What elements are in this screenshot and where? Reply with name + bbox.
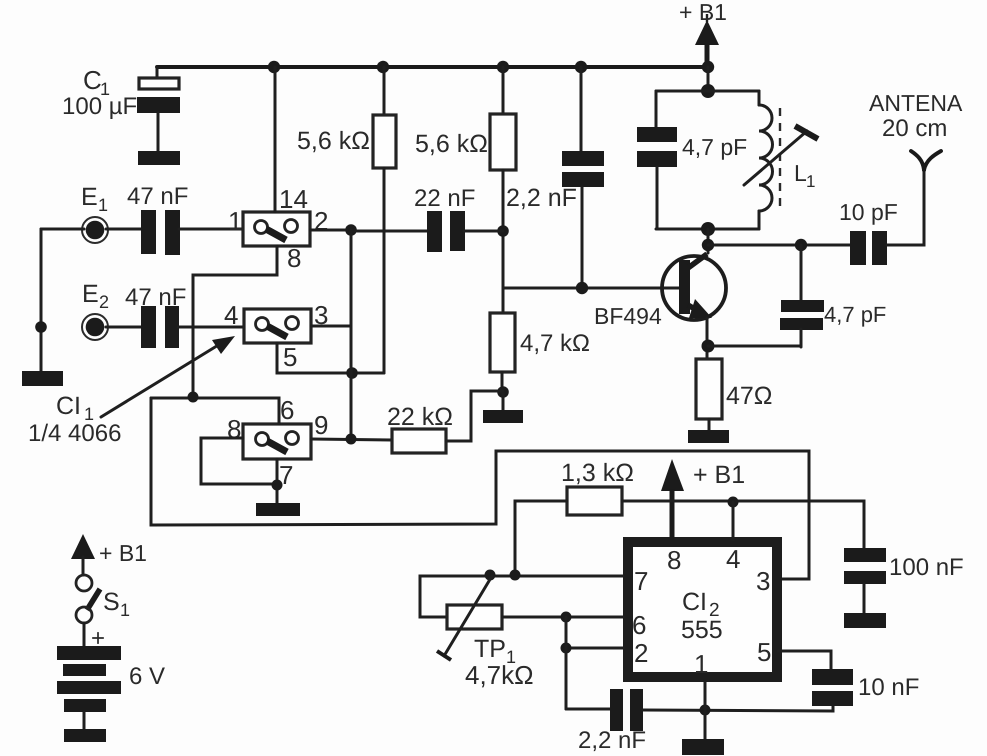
capacitor 10nF	[778, 651, 919, 706]
wire pin14 to rail	[274, 67, 277, 212]
battery cells	[57, 646, 165, 712]
IC CI2 555	[628, 542, 777, 679]
svg-text:6: 6	[632, 610, 646, 640]
power +B1 arrow mid	[661, 459, 745, 540]
ground 4.7k	[483, 410, 523, 423]
wire base line	[503, 287, 680, 290]
node pin7 1.3k junction	[510, 570, 521, 581]
svg-text:4,7 pF: 4,7 pF	[682, 134, 747, 160]
svg-text:8: 8	[287, 243, 301, 273]
wire 47nF to switch pin4	[178, 326, 244, 329]
wire 1.3k left	[515, 501, 567, 575]
trimpot TP1 4.7k	[437, 576, 534, 690]
wire collector	[707, 229, 710, 253]
wire pin1 ground stem	[704, 710, 707, 739]
wire emitter	[706, 318, 709, 359]
wire 47nF to switch pin1	[179, 228, 243, 231]
svg-text:1: 1	[228, 206, 242, 236]
ground input bus	[22, 371, 63, 386]
svg-text:7: 7	[634, 566, 648, 596]
wire pin5 route	[277, 343, 384, 373]
ground 100nF	[844, 613, 886, 628]
wire tank top	[656, 90, 759, 93]
capacitor 2.2nF timing	[566, 689, 646, 754]
svg-text:5: 5	[757, 637, 771, 667]
svg-text:4,7 pF: 4,7 pF	[824, 302, 886, 327]
node base junction	[576, 282, 588, 294]
svg-text:E: E	[82, 280, 99, 308]
label CI1	[28, 392, 121, 447]
transistor Q1 BF494	[594, 254, 726, 329]
node 4.7k ground junction	[497, 386, 509, 398]
ground battery	[64, 729, 106, 742]
capacitor 47nF lower	[125, 284, 186, 348]
node pin5 junction	[346, 367, 358, 379]
svg-text:2: 2	[634, 638, 648, 668]
arrow CI1 pointer	[101, 336, 235, 417]
switch S1	[76, 575, 130, 623]
wire pin3 output	[311, 325, 351, 328]
svg-text:47Ω: 47Ω	[726, 382, 773, 410]
svg-text:CI: CI	[56, 392, 81, 420]
wire pin6	[502, 616, 623, 619]
svg-text:8: 8	[667, 545, 681, 575]
wire S1 to battery	[83, 623, 86, 646]
svg-text:ANTENA: ANTENA	[869, 90, 963, 116]
node rail junction A	[268, 61, 280, 73]
wire pin8 loop	[201, 438, 277, 484]
svg-text:+ B1: + B1	[99, 540, 147, 566]
wire tank feed	[707, 67, 710, 91]
svg-text:20 cm: 20 cm	[882, 115, 947, 142]
capacitor C1 100uF	[62, 65, 180, 151]
antenna symbol	[869, 90, 963, 170]
switch CI1b 4066	[224, 300, 328, 372]
svg-text:1: 1	[98, 195, 108, 215]
wire 4.7pF to emitter	[708, 345, 801, 348]
wire E2 to C 47nF lower	[106, 326, 141, 329]
wire bus pins 2-3-5-9 vertical	[350, 230, 353, 439]
node E2 input connector	[82, 280, 109, 340]
svg-text:4: 4	[726, 544, 740, 574]
svg-text:5,6 kΩ: 5,6 kΩ	[297, 127, 370, 155]
wire pin4	[732, 502, 735, 540]
node pin2 junction	[345, 224, 357, 236]
svg-text:100 µF: 100 µF	[62, 93, 137, 120]
node pin4 junction	[728, 497, 739, 508]
wire output to antenna coupling	[708, 244, 850, 247]
wire 1.3k right to 100nF	[622, 501, 864, 548]
svg-text:47 nF: 47 nF	[127, 183, 188, 210]
switch CI1a 4066	[228, 184, 328, 273]
wire bottom rail	[643, 706, 833, 711]
svg-text:100 nF: 100 nF	[889, 554, 964, 581]
resistor 5.6k first	[297, 67, 396, 168]
resistor 1.3k	[561, 459, 634, 515]
svg-text:555: 555	[681, 616, 723, 644]
node pin7 wiper junction	[485, 570, 496, 581]
svg-text:1: 1	[120, 600, 130, 620]
wire 5.6k2 down	[502, 170, 505, 313]
node tank bottom	[701, 222, 715, 236]
wire pin6 route	[151, 398, 279, 424]
node rail junction E	[702, 61, 714, 73]
svg-text:4,7kΩ: 4,7kΩ	[465, 660, 534, 690]
wire pin7 to ground	[276, 459, 279, 503]
svg-text:5: 5	[283, 342, 297, 372]
node pin2 junction	[561, 643, 572, 654]
svg-text:2,2 nF: 2,2 nF	[506, 184, 577, 212]
capacitor 4.7pF tank	[637, 91, 747, 229]
capacitor 22nF	[351, 185, 503, 252]
inductor L1	[759, 91, 815, 229]
wire pin7	[420, 576, 623, 617]
svg-text:E: E	[81, 183, 98, 211]
svg-text:1,3 kΩ: 1,3 kΩ	[561, 459, 634, 487]
svg-text:S: S	[103, 588, 120, 616]
svg-text:2: 2	[99, 292, 109, 312]
node pin7 junction	[272, 480, 283, 491]
svg-text:BF494: BF494	[594, 303, 662, 329]
svg-text:6: 6	[280, 395, 294, 425]
node rail junction B	[377, 61, 389, 73]
wire E1 to left bus	[41, 228, 84, 231]
svg-text:4,7 kΩ: 4,7 kΩ	[520, 330, 590, 357]
wire 47R to ground	[708, 419, 711, 431]
capacitor 47nF upper	[127, 183, 188, 255]
wire 4.7k bottom	[501, 372, 504, 392]
node pin9 junction	[346, 434, 357, 445]
node rail junction C	[497, 61, 509, 73]
capacitor 10pF	[839, 199, 898, 265]
svg-text:22 kΩ: 22 kΩ	[387, 403, 453, 431]
wire E1 to C 47nF	[106, 228, 141, 231]
node control junction	[188, 392, 199, 403]
resistor 5.6k second	[415, 67, 516, 170]
capacitor 4.7pF feedback	[780, 245, 886, 347]
wire tank bottom	[656, 228, 759, 231]
svg-text:TP: TP	[474, 635, 506, 663]
wire pin1	[704, 682, 707, 710]
switch CI1c 4066	[227, 395, 328, 490]
capacitor 100nF	[844, 548, 964, 613]
svg-text:C: C	[83, 65, 102, 95]
wire 22k to 4.7k ground node	[446, 391, 503, 441]
wire dashed core	[779, 108, 781, 207]
node pin6 junction	[561, 612, 572, 623]
wire pin2	[566, 647, 623, 650]
svg-text:9: 9	[314, 410, 328, 440]
svg-text:14: 14	[279, 184, 308, 214]
wire control loop	[151, 398, 809, 579]
node pin1 junction	[700, 705, 711, 716]
svg-text:22 nF: 22 nF	[414, 185, 475, 212]
svg-text:1: 1	[806, 172, 815, 191]
svg-text:10 pF: 10 pF	[839, 199, 898, 225]
wire timing bus vertical	[565, 617, 568, 709]
node output junction	[702, 239, 714, 251]
ground pin7	[256, 503, 300, 516]
wire pin8 route down-left	[193, 246, 277, 397]
node tank top	[701, 84, 715, 98]
node rail junction D	[575, 61, 587, 73]
wire battery to ground	[83, 712, 86, 729]
trimmer arrow L1	[744, 126, 818, 185]
resistor 47R	[696, 359, 773, 419]
node emitter junction	[702, 340, 715, 353]
power +B1 arrow top	[679, 0, 727, 67]
wire 5.6k to pin5 line	[383, 168, 386, 373]
node left bus junction	[35, 321, 47, 333]
node E1 input connector	[81, 183, 108, 243]
wire pin9 output	[311, 439, 392, 440]
capacitor 2.2nF coupling	[506, 67, 604, 288]
node 4.7pF junction	[795, 239, 807, 251]
svg-text:3: 3	[756, 566, 770, 596]
svg-text:5,6 kΩ: 5,6 kΩ	[415, 130, 488, 158]
svg-text:10 nF: 10 nF	[858, 674, 919, 701]
ground pin1	[682, 739, 724, 755]
svg-text:+ B1: + B1	[693, 461, 745, 489]
svg-text:4: 4	[224, 300, 238, 330]
resistor 4.7k	[490, 313, 590, 372]
wire 10pF to antenna	[887, 167, 924, 245]
svg-text:1: 1	[694, 649, 708, 679]
wire pin2 output	[310, 229, 351, 232]
svg-text:+ B1: + B1	[679, 0, 727, 25]
svg-text:1/4 4066: 1/4 4066	[28, 420, 121, 447]
wire to ground	[502, 392, 505, 410]
node 22nF junction	[497, 225, 509, 237]
svg-text:2,2 nF: 2,2 nF	[578, 727, 646, 754]
wire +B1 supply rail	[157, 65, 708, 69]
resistor 22k	[387, 403, 453, 453]
power +B1 arrow battery	[71, 534, 147, 575]
svg-text:6 V: 6 V	[129, 663, 165, 690]
ground 47R	[688, 430, 729, 443]
ground C1	[138, 151, 180, 165]
wire left input bus	[40, 229, 43, 371]
svg-text:47 nF: 47 nF	[125, 284, 186, 311]
svg-text:CI: CI	[682, 588, 707, 616]
